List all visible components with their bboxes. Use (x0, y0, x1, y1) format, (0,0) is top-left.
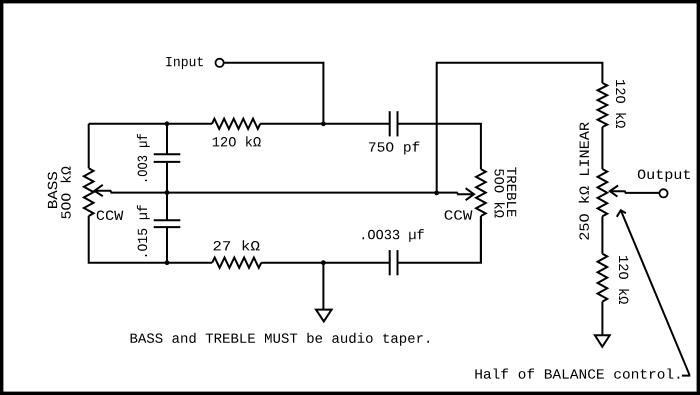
wire to ground (left) (322, 263, 324, 310)
wire cap branch mid-upper (166, 162, 168, 193)
junction input/top-rail (321, 121, 326, 126)
potentiometer TREBLE 500 kΩ (476, 169, 486, 216)
label .015 µf (137, 205, 150, 256)
potentiometer 250 kΩ LINEAR (598, 169, 608, 216)
wire cap branch lower (166, 227, 168, 263)
label BASS (48, 172, 58, 208)
ground (left) (316, 310, 332, 322)
junction top-rail/cap-branch (165, 121, 170, 126)
junction mid-rail/balance-feed (434, 191, 439, 196)
label CCW (treble) (445, 210, 473, 220)
capacitor .003 µf (154, 154, 181, 162)
terminal Output (659, 189, 667, 197)
wire balance feed (437, 63, 603, 193)
wire 120k to pot (601, 127, 603, 169)
wire middle rail (167, 192, 437, 194)
label 500 kΩ (treble) (495, 169, 505, 217)
wire pot to 120k (601, 216, 603, 253)
wire top rail middle (260, 123, 390, 125)
label 500 kΩ (bass) (61, 167, 71, 219)
wire treble bottom (480, 216, 482, 263)
wire to ground (right) (601, 302, 603, 336)
balance wiper arrow (610, 186, 659, 197)
resistor 120 kΩ (upper right) (598, 83, 608, 127)
capacitor 750 pf (390, 111, 398, 136)
wire top rail right (398, 124, 481, 169)
wire cap branch upper (166, 124, 168, 155)
junction mid-rail/cap-branch (165, 190, 170, 195)
label CCW (bass) (97, 211, 124, 221)
wire bass branch bottom (89, 216, 167, 263)
label 750 pf (369, 142, 419, 155)
junction bottom-rail/ground (321, 260, 326, 265)
wire bottom rail right (398, 218, 481, 263)
label .0033 µf (363, 229, 424, 242)
potentiometer BASS 500 kΩ (84, 168, 94, 216)
label 120 kΩ (upper right) (616, 80, 626, 128)
wire bass branch top (88, 124, 90, 168)
resistor 120 kΩ (lower right) (598, 254, 608, 302)
capacitor .0033 µf (390, 250, 398, 275)
resistor 27 kΩ (212, 258, 261, 268)
label 250 kΩ LINEAR (579, 122, 589, 239)
label Output (638, 170, 690, 182)
balance annotation arrow (617, 210, 690, 375)
wire bottom rail left (167, 262, 212, 264)
terminal Input (216, 59, 224, 67)
note half of balance control (475, 369, 679, 379)
wire bottom rail middle (261, 262, 389, 264)
bass wiper arrow (94, 185, 167, 196)
note audio taper (131, 333, 429, 346)
resistor 120 kΩ (top) (212, 119, 260, 129)
junction bottom-rail/cap-branch (165, 260, 170, 265)
capacitor .015 µf (154, 220, 181, 227)
label TREBLE (507, 167, 516, 216)
ground (right) (595, 335, 610, 347)
wire cap branch mid-lower (166, 193, 168, 221)
treble wiper arrow (437, 188, 474, 200)
wire input to top rail (224, 63, 323, 124)
label 120 kΩ (lower right) (619, 256, 629, 304)
wire top rail left (89, 123, 212, 125)
label 27 kΩ (214, 240, 260, 250)
label .003 µf (137, 134, 150, 181)
label Input (166, 57, 203, 69)
label 120 kΩ (top) (213, 136, 261, 146)
